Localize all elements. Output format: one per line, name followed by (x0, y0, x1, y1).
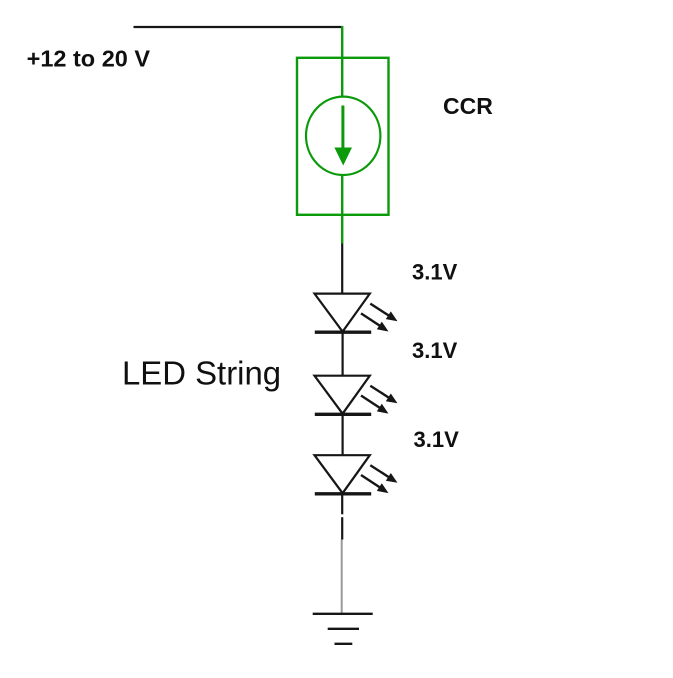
svg-text:LED String: LED String (122, 355, 281, 392)
svg-text:CCR: CCR (443, 93, 493, 119)
svg-text:+12 to 20 V: +12 to 20 V (27, 46, 151, 72)
svg-text:3.1V: 3.1V (412, 260, 458, 285)
svg-text:3.1V: 3.1V (414, 427, 460, 452)
svg-text:3.1V: 3.1V (412, 338, 458, 363)
